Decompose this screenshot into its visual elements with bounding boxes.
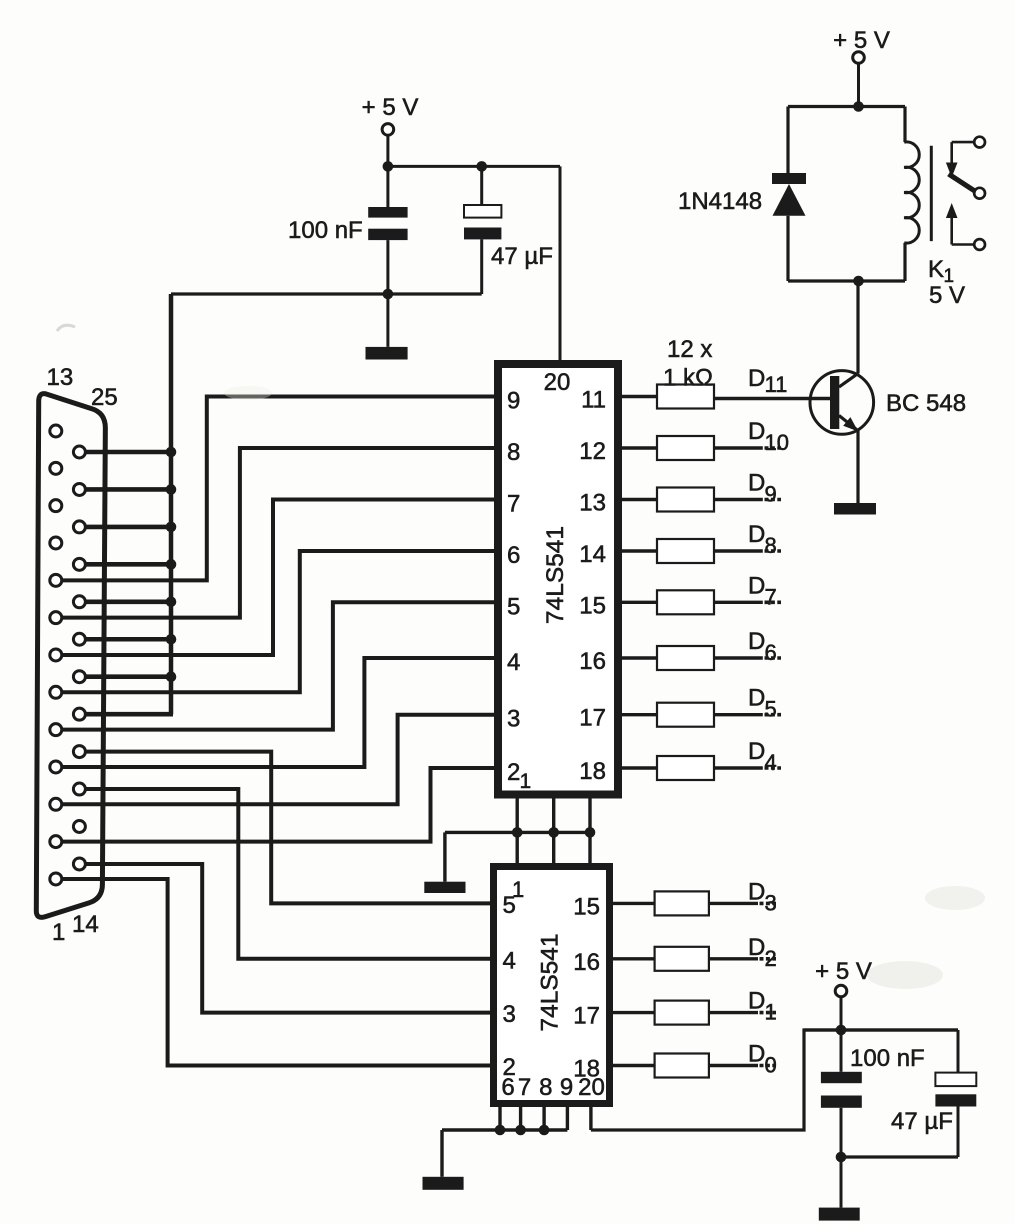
svg-text:6: 6 (507, 542, 520, 569)
svg-text:1: 1 (52, 919, 65, 946)
svg-text:16: 16 (579, 648, 606, 675)
svg-text:2: 2 (507, 759, 520, 786)
svg-text:1: 1 (765, 1000, 777, 1025)
svg-text:9: 9 (560, 1074, 573, 1101)
svg-text:0: 0 (765, 1053, 777, 1078)
svg-text:74LS541: 74LS541 (542, 526, 569, 624)
svg-text:3: 3 (765, 890, 777, 915)
svg-text:D: D (748, 572, 765, 599)
svg-text:11: 11 (765, 372, 788, 397)
svg-text:14: 14 (72, 911, 99, 938)
svg-text:20: 20 (578, 1074, 605, 1101)
svg-text:17: 17 (579, 705, 606, 732)
svg-text:4: 4 (507, 649, 520, 676)
svg-text:D: D (748, 1041, 765, 1068)
svg-text:9: 9 (765, 482, 777, 507)
svg-text:20: 20 (544, 369, 571, 396)
svg-text:+ 5 V: + 5 V (362, 94, 419, 121)
svg-text:15: 15 (579, 592, 606, 619)
svg-text:5: 5 (765, 697, 777, 722)
svg-text:K: K (928, 256, 944, 283)
svg-text:1 kΩ: 1 kΩ (663, 365, 713, 392)
svg-text:5: 5 (507, 593, 520, 620)
svg-text:9: 9 (507, 388, 520, 415)
svg-text:6: 6 (765, 640, 777, 665)
svg-text:5: 5 (503, 892, 516, 919)
svg-text:1: 1 (520, 770, 532, 793)
svg-text:47 µF: 47 µF (891, 1108, 953, 1135)
svg-text:7: 7 (518, 1074, 531, 1101)
svg-text:14: 14 (579, 541, 606, 568)
svg-text:3: 3 (503, 1001, 516, 1028)
svg-text:D: D (748, 418, 765, 445)
svg-text:25: 25 (91, 384, 118, 411)
svg-text:17: 17 (573, 1003, 600, 1030)
svg-text:8: 8 (765, 533, 777, 558)
svg-text:8: 8 (539, 1074, 552, 1101)
svg-text:4: 4 (765, 750, 777, 775)
svg-text:12: 12 (579, 438, 606, 465)
svg-text:D: D (748, 365, 765, 392)
svg-text:D: D (748, 988, 765, 1015)
svg-text:+ 5 V: + 5 V (833, 27, 890, 54)
svg-text:D: D (748, 685, 765, 712)
svg-text:6: 6 (501, 1074, 514, 1101)
svg-text:2: 2 (765, 946, 777, 971)
svg-text:100 nF: 100 nF (288, 217, 363, 244)
svg-text:13: 13 (47, 364, 74, 391)
svg-text:47 µF: 47 µF (491, 243, 553, 270)
svg-text:BC 548: BC 548 (886, 390, 966, 417)
svg-text:D: D (748, 628, 765, 655)
svg-text:74LS541: 74LS541 (536, 933, 563, 1031)
svg-text:100 nF: 100 nF (850, 1045, 925, 1072)
svg-text:15: 15 (573, 893, 600, 920)
svg-text:13: 13 (579, 490, 606, 517)
svg-text:D: D (748, 470, 765, 497)
svg-text:16: 16 (573, 949, 600, 976)
svg-text:18: 18 (579, 758, 606, 785)
svg-text:D: D (748, 878, 765, 905)
svg-text:D: D (748, 521, 765, 548)
svg-text:D: D (748, 738, 765, 765)
svg-text:7: 7 (507, 491, 520, 518)
svg-text:7: 7 (765, 584, 777, 609)
svg-text:4: 4 (503, 947, 516, 974)
svg-text:5 V: 5 V (929, 282, 965, 309)
svg-text:8: 8 (507, 439, 520, 466)
svg-text:11: 11 (581, 387, 606, 414)
svg-text:1N4148: 1N4148 (678, 188, 762, 215)
svg-text:+ 5 V: + 5 V (815, 958, 872, 985)
svg-text:3: 3 (507, 706, 520, 733)
svg-text:12 x: 12 x (667, 336, 712, 363)
svg-text:10: 10 (765, 430, 789, 455)
svg-text:D: D (748, 934, 765, 961)
